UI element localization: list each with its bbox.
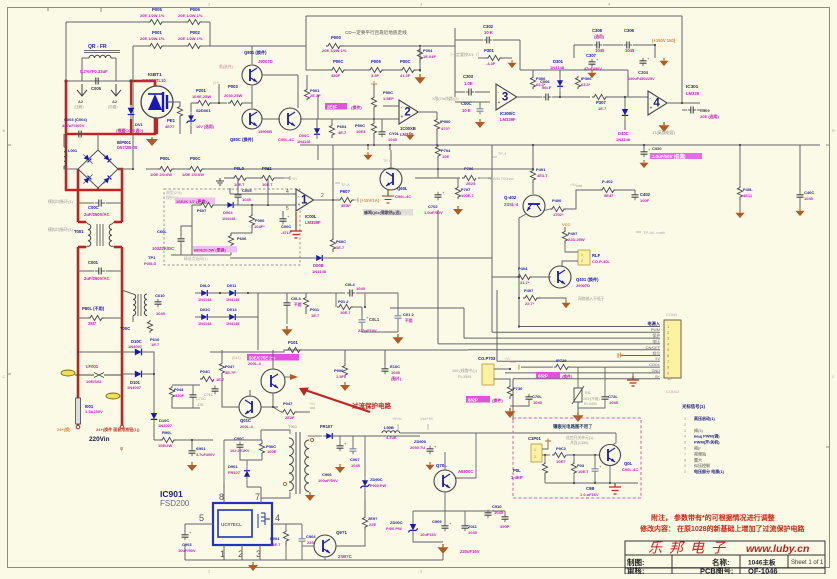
svg-text:682P: 682P [468,398,478,403]
svg-text:10E.7: 10E.7 [340,310,351,315]
svg-text:C90L-4C: C90L-4C [395,194,411,199]
svg-text:100E: 100E [267,449,277,454]
svg-text:(011): (011) [232,356,241,360]
IC901 pin5 [185,513,213,524]
capacitor C308 [592,28,605,53]
transistor Q402 [504,195,545,298]
svg-text:RLF: RLF [592,253,601,258]
svg-text:D004: D004 [223,210,233,215]
svg-text:TP-A: TP-A [341,183,350,187]
svg-text:10E.7: 10E.7 [578,469,589,474]
ground opamp2 [406,132,415,140]
wire q cluster [252,46,318,119]
wire op3 in [455,92,490,106]
resistor P902 [552,446,567,464]
svg-text:P001: P001 [152,30,162,35]
svg-text:P60?: P60? [340,189,350,194]
svg-text:相位: 相位 [652,351,660,356]
svg-text:5E47: 5E47 [604,193,614,198]
svg-text:C901: C901 [196,446,206,451]
svg-text:P/00.PW: P/00.PW [386,526,402,531]
label IC00B [400,126,416,137]
ground p010 [216,176,224,185]
svg-text:2SSL-4: 2SSL-4 [504,202,519,207]
bridge rectifier D001-D004 [78,140,138,188]
svg-text:1N4007: 1N4007 [127,385,142,390]
resistor P006 [178,7,203,25]
resistor P900b [434,118,451,146]
svg-text:P006: P006 [190,7,200,12]
svg-text:41.3F: 41.3F [400,73,411,78]
resistor P730 [466,385,523,403]
red wire bridge right [118,169,122,222]
label mains filter note1 [48,198,74,204]
svg-text:P607: P607 [197,208,207,213]
svg-text:4: 4 [275,513,280,523]
red rail bottom [78,284,122,425]
svg-text:P400: P400 [552,198,562,203]
wire remote2 [544,454,599,466]
title block table [625,541,825,574]
svg-text:2: 2 [404,107,410,119]
label +5v con [504,357,516,362]
svg-text:PE1: PE1 [167,118,176,123]
mains terminal R [120,425,124,429]
resistor P00D [400,59,416,78]
ground p301 [508,60,517,68]
svg-text:PWM 700mw: PWM 700mw [490,176,514,181]
svg-text:31.7*: 31.7* [520,280,530,285]
svg-text:4E11: 4E11 [743,193,753,198]
svg-text:(换件): (换件) [351,104,362,110]
resistor P044 [169,385,200,408]
label VCC [562,222,571,227]
svg-text:LM339: LM339 [686,91,700,96]
wire op4 out [668,16,700,104]
capacitor C00C2 [461,101,484,114]
svg-text:20E 1/2W 1%: 20E 1/2W 1% [178,13,203,18]
fuse LF001 [75,364,122,384]
svg-text:网络输入不低于: 网络输入不低于 [578,296,605,301]
svg-text:C90L-4C: C90L-4C [622,467,638,472]
svg-text:LM339F: LM339F [500,117,516,122]
svg-text:不用: 不用 [294,302,302,307]
wire remote3 [545,455,638,484]
label 220uF [460,549,480,554]
svg-text:P730: P730 [513,386,523,391]
ground op4 [659,110,670,132]
label heatsink [363,209,413,216]
resistor P30B [575,76,592,89]
svg-text:4E77: 4E77 [165,124,175,129]
transistor Q401 [549,266,599,288]
label 220Vin [57,426,140,452]
label p5v arrow [284,176,298,181]
capacitor C012 [365,293,414,323]
svg-text:1KW30TL10: 1KW30TL10 [142,78,166,83]
ground cz01 [426,462,435,470]
labels harness [646,320,661,379]
resistor P00C [330,59,346,78]
svg-text:C005: C005 [242,188,252,193]
ground remote [609,483,621,494]
svg-text:1: 1 [581,253,583,257]
IC901 pin3 [256,545,261,560]
svg-text:T001: T001 [74,229,84,234]
capacitor C902 [230,436,250,453]
svg-text:-4.3F: -4.3F [486,61,496,66]
resistor P606 [228,233,252,255]
label P904 [270,536,281,547]
svg-text:P306: P306 [536,76,546,81]
svg-text:P9C2: P9C2 [556,446,567,451]
svg-text:CO.P703: CO.P703 [478,356,496,361]
transformer t901 sec2 gnd [305,490,315,501]
svg-text:10E7: 10E7 [556,459,566,464]
svg-text:7: 7 [684,452,686,456]
svg-text:似压控制: 似压控制 [693,462,710,468]
transformer T00C [120,290,147,331]
op-amp IC00L unit1 [286,189,324,212]
svg-text:T901: T901 [288,424,298,429]
svg-text:10uF16V: 10uF16V [420,532,437,537]
capacitor C911 [462,511,478,535]
resistor P900 [334,350,348,379]
svg-text:P606: P606 [237,236,247,241]
label in3 [432,96,459,101]
svg-text:10 E: 10 E [462,108,471,113]
label dashed hdr [166,190,182,200]
svg-text:C910: C910 [492,504,502,509]
svg-text:1N4148: 1N4148 [198,322,211,326]
svg-text:P011: P011 [262,166,272,171]
svg-text:4.7uF400V: 4.7uF400V [196,453,215,457]
svg-text:ZD00C: ZD00C [390,520,403,525]
svg-text:8: 8 [684,458,686,462]
wire bridge out [62,117,134,170]
label hot1 [219,64,234,69]
svg-text:1045: 1045 [804,196,814,201]
svg-text:CY0L: CY0L [389,131,400,136]
wire row2 ext [344,45,455,70]
svg-text:ZD90C: ZD90C [370,477,383,482]
svg-text:(贴片): (贴片) [391,376,402,381]
resistor P201 [191,81,227,106]
svg-text:L001: L001 [68,148,78,153]
resistor P706 [462,166,476,186]
svg-text:IGBT1: IGBT1 [148,72,162,77]
svg-text:0.2%#F0.33uF: 0.2%#F0.33uF [80,69,108,74]
wire cap row [413,511,505,542]
svg-text:C904: C904 [306,534,316,539]
svg-text:修改内容： 在原1028的新基础上增加了过流保护电路: 修改内容： 在原1028的新基础上增加了过流保护电路 [639,524,806,533]
diode D101 [122,371,155,390]
capacitor C90r [580,464,602,497]
title logo [648,540,809,556]
resistor P002 [178,30,203,49]
svg-text:P704: P704 [441,148,451,153]
wire top row2 [133,46,306,169]
svg-text:Q0L: Q0L [624,461,633,466]
resistor P00Cb [182,156,204,177]
svg-text:www.luby.cn: www.luby.cn [746,543,809,555]
transistor Q60L [356,150,402,190]
svg-text:47uF450V: 47uF450V [584,67,602,71]
label mid306 [521,101,523,103]
red mains rail left [66,134,122,190]
resistor P404 [492,266,551,285]
resistor P301 [478,48,512,66]
svg-text:5: 5 [684,441,686,445]
svg-text:E10C: E10C [390,364,400,369]
svg-text:24E.7: 24E.7 [270,542,281,547]
transistor Q801 [242,49,273,85]
svg-text:220Vin: 220Vin [89,436,110,443]
svg-text:C70L: C70L [532,394,542,399]
ground igbt [146,118,158,146]
svg-text:17(高频电容): 17(高频电容) [652,129,676,135]
svg-text:1045: 1045 [242,197,252,202]
wire con703 area [486,290,497,314]
svg-text:TP-6: TP-6 [383,159,391,163]
svg-text:P604: P604 [337,124,347,129]
red wire bridge left [77,134,80,222]
svg-text:D013: D013 [227,307,237,312]
resistor P607 [197,202,214,213]
label Q60L [395,186,411,199]
svg-text:20E 1/2W 1%: 20E 1/2W 1% [322,48,347,53]
transistor Q601 [243,108,301,146]
svg-text:2E3F: 2E3F [327,105,337,110]
svg-text:CON1: CON1 [666,312,678,317]
svg-text:L90B: L90B [384,425,394,430]
svg-text:IC300/C: IC300/C [500,111,515,116]
svg-text:682P: 682P [538,374,548,379]
svg-text:T00C: T00C [120,326,130,331]
svg-text:C007: C007 [350,457,360,462]
wire t901 sec [308,435,322,437]
wire hv rail2 [204,168,533,170]
svg-text:(压敏): (压敏) [74,104,84,109]
transistor Q70L [434,463,473,492]
diode D10E [151,410,173,440]
diode D004 [222,202,238,221]
svg-text:Vsd+5V: Vsd+5V [420,417,434,421]
svg-text:1E.7: 1E.7 [216,377,225,382]
wire ic901 gnd [185,544,443,571]
zener ZD001 [187,103,215,134]
svg-text:C950: C950 [652,146,662,151]
svg-text:S2D001: S2D001 [196,108,211,113]
svg-text:1045: 1045 [156,311,166,316]
svg-text:+: + [298,202,301,208]
svg-text:470?: 470? [441,126,451,131]
svg-text:2050.7U: 2050.7U [410,445,425,450]
resistor P011v [303,293,320,318]
diode D601 [297,125,320,144]
svg-text:IC00L: IC00L [305,214,317,219]
svg-text:4: 4 [286,189,289,195]
resistor P903r [571,462,589,474]
IC901 pin8 [219,484,224,503]
svg-text:24+(换): 24+(换) [57,426,71,432]
svg-text:9: 9 [684,464,686,468]
svg-text:P307: P307 [596,100,606,105]
wire rt1 [577,367,579,412]
capacitor C0L4 [336,282,366,307]
svg-text:22E: 22E [369,522,376,527]
dashed remote box [513,418,641,498]
ground con703 [505,399,530,418]
svg-text:+: + [498,100,501,106]
fuse holder F2 [106,393,120,399]
svg-text:IP306: IP306 [581,76,592,81]
capacitor C903 [178,524,196,553]
svg-text:63.3*: 63.3* [581,82,591,87]
resistor P707 [455,186,474,199]
wire c30x [574,44,656,58]
svg-text:Q801 (换件): Q801 (换件) [244,49,267,56]
svg-text:22D.25W: 22D.25W [568,237,585,242]
label CD note [345,29,407,36]
svg-text:Q9?1: Q9?1 [336,530,348,535]
svg-text:VCC: VCC [562,222,571,227]
IGBT1 [141,72,173,118]
svg-text:100 (线路中心): 100 (线路中心) [452,368,478,373]
svg-text:PCB图号:: PCB图号: [700,567,733,575]
capacitor C307 [584,53,602,71]
resistor P50E [355,118,377,146]
note red line2 [639,524,806,533]
svg-text:100F: 100F [640,198,650,203]
wire opamp1 top [224,177,290,179]
resistor P401 [530,167,548,194]
svg-text:5: 5 [286,206,289,212]
svg-text:2: 2 [581,259,583,263]
capacitor C60L [152,226,192,255]
capacitor C006 [543,94,551,101]
svg-text:P80L (不用): P80L (不用) [82,305,105,312]
ground c950 [640,160,649,168]
svg-text:P900.PW: P900.PW [370,484,386,488]
svg-text:4: 4 [653,98,660,110]
wire nest1 [210,307,436,309]
svg-text:100E.7: 100E.7 [461,193,474,198]
svg-text:P-402: P-402 [602,179,613,184]
svg-text:QR - FR: QR - FR [88,44,107,50]
wire con703 pins [494,368,511,385]
IC901 pin1 [220,545,225,560]
svg-text:5V: 5V [655,357,660,361]
svg-text:P707: P707 [461,187,471,192]
svg-text:1.5A250V: 1.5A250V [85,409,103,414]
svg-text:0: 0 [684,470,686,474]
capacitor C41C [190,385,206,408]
label Q011b [248,361,261,366]
svg-text:P301: P301 [484,48,494,53]
wire q901 base [285,524,314,546]
diode D10C [77,339,154,410]
svg-text:1045: 1045 [391,370,401,375]
label protection [352,401,392,410]
wire rail350c [302,349,468,351]
svg-text:1.5F: 1.5F [336,374,345,379]
svg-text:(+150V 150): (+150V 150) [652,38,676,43]
resistor P000v [249,205,265,233]
red link C002 box [78,221,122,224]
resistor P50C [371,81,394,119]
svg-text:Q60L: Q60L [397,186,408,191]
svg-text:C?1C: C?1C [204,393,214,397]
svg-text:P304: P304 [423,48,433,53]
svg-text:UC#7ECL: UC#7ECL [221,522,242,527]
ground c906 [335,464,345,473]
svg-text:22.7*: 22.7* [525,301,535,306]
capacitor C309 [682,107,720,120]
resistor P907 [362,500,378,530]
capacitor C013 [284,296,302,308]
svg-text:C303: C303 [463,74,474,79]
wire vert drop [456,433,476,511]
wire rail350 [150,350,660,352]
svg-text:6: 6 [684,447,686,451]
svg-text:掉(1): 掉(1) [694,427,704,433]
svg-text:CD一定要平行且靠近地底走线: CD一定要平行且靠近地底走线 [345,29,407,36]
capacitor C40C [796,190,815,216]
wire q70l [420,452,476,511]
svg-text:1045: 1045 [533,400,543,405]
resistor PE1 [165,102,183,134]
svg-text:C: C [3,374,6,379]
svg-text:GND: GND [652,369,661,373]
svg-text:200L-4: 200L-4 [248,361,261,366]
capacitor C906 [318,436,420,483]
transformer T901 [283,424,313,494]
svg-text:TP-4: TP-4 [498,152,506,156]
wire dashed bottom [171,254,231,256]
wire p904 bus [272,524,325,560]
resistor P402 [600,179,616,198]
svg-text:1E.04F: 1E.04F [423,54,436,59]
resistor P011 [260,166,274,187]
resistor P604 [329,124,347,138]
resistor P306 [530,70,546,89]
svg-text:制图:: 制图: [627,557,645,567]
wire sec row [195,292,345,350]
svg-text:+: + [650,106,653,112]
svg-text:相(/: 相(/ [694,445,701,451]
svg-text:CON12: CON12 [666,389,680,394]
svg-text:680E20.5W (更换): 680E20.5W (更换) [194,248,226,253]
label TP1 [144,255,157,266]
svg-text:47E: 47E [197,403,204,407]
title row2 [627,557,824,567]
diode D40C [616,96,631,142]
svg-text:C71C: C71C [196,397,206,401]
wire HV rail [146,168,188,170]
svg-text:103Z2K/DC: 103Z2K/DC [152,246,174,251]
svg-text:1 0.uF16V: 1 0.uF16V [580,492,599,497]
resistor P003 [224,84,252,108]
svg-text:(+15V/1A): (+15V/1A) [360,198,380,203]
IC901 pin2 [238,545,243,560]
svg-text:(根据C0?T选?): (根据C0?T选?) [116,127,144,133]
svg-text:精选点选间(1): 精选点选间(1) [184,256,208,261]
svg-text:Q401 (换件): Q401 (换件) [576,276,599,283]
svg-text:+5V: +5V [504,357,511,361]
svg-text:DV1: DV1 [135,122,144,127]
svg-text:5: 5 [199,513,204,523]
